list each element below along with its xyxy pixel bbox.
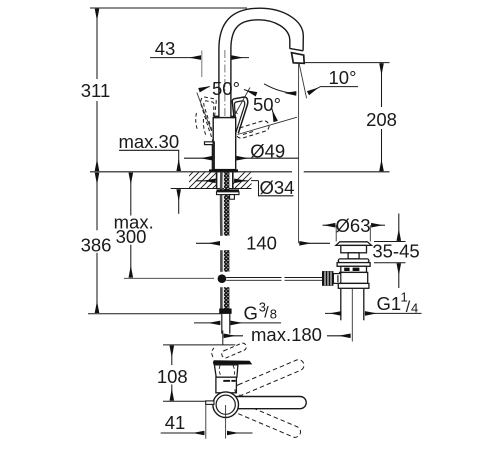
svg-text:/: /: [264, 305, 269, 322]
svg-text:Ø63: Ø63: [336, 215, 371, 236]
svg-text:10°: 10°: [329, 67, 357, 88]
ball joint: [218, 274, 227, 283]
svg-text:Ø34: Ø34: [260, 177, 295, 198]
lever bar (horizontal): [231, 397, 306, 409]
extension line circle center: [225, 405, 227, 439]
tilted 10-degree line: [299, 64, 306, 99]
svg-text:208: 208: [366, 109, 397, 130]
pop-up pin (left): [206, 401, 214, 405]
dashed lever up position: [233, 358, 305, 397]
rod knob (knurled): [322, 271, 333, 286]
seal ring: [338, 259, 369, 263]
svg-text:108: 108: [157, 366, 188, 387]
counter hatching right: [228, 171, 264, 189]
base flange: [209, 169, 238, 172]
body top cap stubs: [213, 116, 219, 119]
dimension 386: [96, 173, 98, 313]
spout gooseneck outline: [219, 8, 303, 117]
bottom reference line (lever axis): [163, 400, 206, 402]
svg-text:300: 300: [116, 226, 147, 247]
dimension max.300: [130, 173, 132, 278]
dimension dia 34: [196, 180, 216, 182]
svg-text:8: 8: [270, 307, 277, 322]
pop-up rod horizontal reference: [124, 277, 214, 279]
centerline of faucet axis: [224, 50, 226, 170]
knob connector: [333, 274, 340, 284]
svg-text:G1: G1: [377, 293, 402, 314]
lower nut: [338, 283, 369, 288]
drain center pin: [348, 253, 359, 259]
counter top line: [90, 171, 292, 173]
drain lower body: [340, 272, 368, 283]
connection tube G3/8: [222, 314, 230, 334]
svg-text:max.30: max.30: [118, 131, 179, 152]
handle dashed position (lower right): [235, 119, 271, 139]
handle dashed position (left, open): [196, 97, 217, 147]
drain body with notches: [341, 266, 367, 272]
spout joint line: [290, 48, 304, 50]
lever blade (black): [213, 360, 252, 365]
dashed lever down position: [230, 400, 302, 439]
svg-text:50°: 50°: [253, 94, 281, 115]
handle solid (lever up-right): [232, 97, 247, 133]
dashed raised lever blade: [212, 342, 248, 359]
spout nozzle (mousseur): [292, 53, 305, 64]
drain upper body: [341, 245, 367, 252]
svg-text:50°: 50°: [212, 78, 240, 99]
svg-text:140: 140: [246, 233, 277, 254]
valve circle: [213, 392, 239, 418]
hose segment 2: [221, 250, 229, 272]
svg-text:43: 43: [155, 38, 176, 59]
hose end fitting: [219, 309, 231, 314]
top reference line: [163, 344, 235, 346]
svg-text:35-45: 35-45: [372, 241, 419, 262]
bottom reference line (hose end): [88, 313, 221, 315]
pop-up rod behind body: [205, 142, 215, 171]
base column: [216, 377, 237, 393]
svg-text:max.180: max.180: [251, 324, 322, 345]
faucet body: [213, 118, 236, 170]
braided hose inside shank: [224, 173, 230, 236]
wire: top reference line (spout top): [90, 7, 247, 9]
water stream vertical reference line: [298, 64, 300, 244]
dimension 108: [171, 346, 173, 401]
drain flange (top): [336, 242, 372, 246]
extension line pin left: [205, 405, 207, 439]
upper locking ring: [337, 263, 370, 267]
supply hose upper (gray): [220, 173, 223, 236]
cartridge housing: [214, 365, 238, 377]
tailpipe: [341, 288, 364, 320]
counter bottom line: [171, 188, 252, 190]
svg-text:386: 386: [81, 235, 112, 256]
svg-text:41: 41: [165, 412, 186, 433]
mounting nut: [217, 189, 240, 191]
dimension 311: [96, 9, 98, 171]
horizontal rod to drain: [226, 278, 322, 281]
counter hatching left: [176, 171, 230, 189]
tailpipe centerline: [351, 289, 353, 342]
svg-text:311: 311: [81, 80, 111, 101]
dimension 208: [305, 62, 390, 64]
hose segment 3: [221, 287, 229, 308]
svg-text:G: G: [244, 303, 258, 324]
extension line for 43: [201, 51, 203, 78]
mounting shank through counter: [216, 172, 218, 188]
